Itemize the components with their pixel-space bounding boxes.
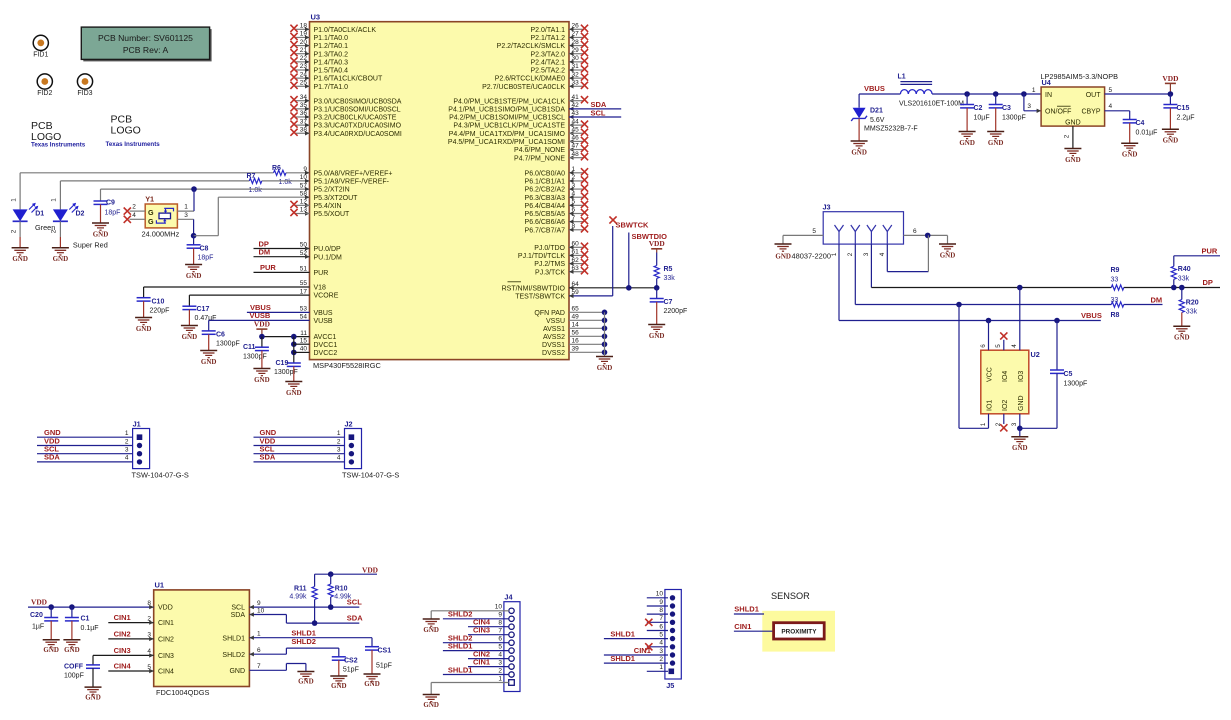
svg-text:56: 56 <box>572 330 580 337</box>
capacitor CS2 <box>332 656 346 658</box>
svg-text:6: 6 <box>913 228 917 235</box>
svg-text:8: 8 <box>498 620 502 627</box>
svg-text:7: 7 <box>498 628 502 635</box>
svg-text:GND: GND <box>1065 119 1081 126</box>
svg-text:TSW-104-07-G-S: TSW-104-07-G-S <box>132 471 189 480</box>
svg-text:VSSU: VSSU <box>546 318 565 325</box>
wire U4 OUT to VDD <box>1105 93 1171 95</box>
svg-text:52: 52 <box>300 250 308 257</box>
U3 pin DVCC1 15 <box>294 343 310 345</box>
capacitor C9 <box>100 189 102 201</box>
svg-text:1: 1 <box>125 430 129 437</box>
svg-text:J1: J1 <box>133 420 141 429</box>
svg-text:33k: 33k <box>1186 309 1198 316</box>
svg-text:1300pF: 1300pF <box>1002 114 1026 121</box>
svg-text:1300pF: 1300pF <box>216 341 240 348</box>
crystal Y1 pin 4 no-connect <box>130 218 146 220</box>
J3 pin 3 wire DP <box>870 244 872 287</box>
svg-text:OUT: OUT <box>1086 92 1102 99</box>
svg-text:SHLD2: SHLD2 <box>291 637 316 646</box>
svg-text:SHLD2: SHLD2 <box>222 652 245 659</box>
U1 pin CIN2 3 <box>108 638 153 640</box>
svg-text:C6: C6 <box>216 332 225 339</box>
wire net P5.1 to R7 to D2 <box>60 180 249 182</box>
wire net SDA to J2 pin 4 <box>254 461 345 463</box>
wire L1 to U4 IN <box>932 93 1041 95</box>
wire net SHLD1 to J5 pin 2 <box>604 662 668 664</box>
svg-text:2: 2 <box>847 252 854 256</box>
svg-text:C9: C9 <box>106 200 115 207</box>
svg-text:P1.7/TA1.0: P1.7/TA1.0 <box>314 84 349 91</box>
svg-text:2: 2 <box>659 656 663 663</box>
svg-text:1.0k: 1.0k <box>279 179 293 186</box>
ground at J3 pin6 <box>939 243 956 245</box>
svg-text:P6.5/CB5/A5: P6.5/CB5/A5 <box>525 211 566 218</box>
svg-text:D2: D2 <box>76 211 85 218</box>
svg-text:SCL: SCL <box>591 108 606 117</box>
svg-text:5: 5 <box>659 631 663 638</box>
svg-text:QFN PAD: QFN PAD <box>534 310 565 317</box>
svg-text:FID1: FID1 <box>33 52 48 59</box>
wire net GND to J2 pin 1 <box>254 436 345 438</box>
svg-text:P4.5/PM_UCA1RXD/PM_UCA1SOMI: P4.5/PM_UCA1RXD/PM_UCA1SOMI <box>448 139 565 146</box>
svg-text:P4.1/PM_UCB1SIMO/PM_UCB1SDA: P4.1/PM_UCB1SIMO/PM_UCB1SDA <box>448 106 565 113</box>
wire net P5.0 to R6 to D1 <box>20 172 273 174</box>
svg-text:64: 64 <box>572 281 580 288</box>
ground at J4 pin10 <box>423 618 440 620</box>
svg-text:P4.6/PM_NONE: P4.6/PM_NONE <box>514 147 565 154</box>
svg-text:P5.5/XOUT: P5.5/XOUT <box>314 211 351 218</box>
svg-text:2: 2 <box>51 229 58 233</box>
svg-text:P4.0/PM_UCB1STE/PM_UCA1CLK: P4.0/PM_UCB1STE/PM_UCA1CLK <box>453 98 565 105</box>
svg-text:7: 7 <box>659 615 663 622</box>
svg-text:51pF: 51pF <box>376 662 392 669</box>
wire VDD to AVCC1 DVCC rail <box>262 336 310 338</box>
svg-text:48037-2200: 48037-2200 <box>792 252 831 261</box>
svg-text:GND: GND <box>959 139 975 147</box>
svg-text:P3.2/UCB0CLK/UCA0STE: P3.2/UCB0CLK/UCA0STE <box>314 115 397 122</box>
svg-text:TSW-104-07-G-S: TSW-104-07-G-S <box>342 471 399 480</box>
ground at J3 pin5 <box>775 243 792 245</box>
svg-text:4.99k: 4.99k <box>289 594 307 601</box>
ground at C15 <box>1162 128 1179 130</box>
capacitor COFF <box>92 655 94 665</box>
svg-text:R9: R9 <box>1111 267 1120 274</box>
svg-text:39: 39 <box>572 346 580 353</box>
svg-text:50: 50 <box>300 242 308 249</box>
svg-text:GND: GND <box>1065 156 1081 164</box>
capacitor CS1 <box>371 638 373 647</box>
U3 port PJ no-connect pins 60-63 <box>569 246 583 248</box>
resistor R5 <box>656 253 658 266</box>
svg-text:CIN4: CIN4 <box>158 669 174 676</box>
wire net CIN1 to J5 pin 3 <box>604 654 668 656</box>
capacitor C2 <box>966 94 968 105</box>
svg-text:4: 4 <box>132 212 136 219</box>
svg-text:65: 65 <box>572 306 580 313</box>
svg-text:U3: U3 <box>311 13 321 22</box>
svg-text:1: 1 <box>257 631 261 638</box>
wire net SHLD1 to J4 pin 2 <box>443 674 509 676</box>
svg-text:GND: GND <box>775 253 791 261</box>
svg-text:PUR: PUR <box>314 270 329 277</box>
svg-text:24.000MHz: 24.000MHz <box>142 230 180 239</box>
svg-text:SHLD1: SHLD1 <box>448 641 473 650</box>
svg-text:VBUS: VBUS <box>864 84 885 93</box>
svg-text:SENSOR: SENSOR <box>771 591 810 601</box>
U4 GND pin 2 to ground <box>1072 126 1074 148</box>
svg-text:1: 1 <box>51 198 58 202</box>
crystal Y1 <box>145 204 177 228</box>
svg-text:3: 3 <box>1011 422 1018 426</box>
PCB number box <box>83 29 211 61</box>
svg-text:3: 3 <box>863 252 870 256</box>
svg-text:P6.3/CB3/A3: P6.3/CB3/A3 <box>525 195 566 202</box>
svg-text:P2.0/TA1.1: P2.0/TA1.1 <box>530 27 565 34</box>
svg-text:GND: GND <box>851 148 867 156</box>
svg-text:GND: GND <box>85 693 101 701</box>
svg-text:2: 2 <box>125 438 129 445</box>
svg-text:C11: C11 <box>243 344 256 351</box>
svg-text:GND: GND <box>988 139 1004 147</box>
svg-text:3: 3 <box>498 659 502 666</box>
svg-text:VBUS: VBUS <box>1081 311 1102 320</box>
svg-text:GND: GND <box>423 626 439 634</box>
wire net DM <box>855 304 1111 306</box>
wire net SHLD2 to J4 pin 6 <box>443 642 509 644</box>
svg-text:1: 1 <box>980 422 987 426</box>
U1 pin SHLD2 6 wire <box>249 653 286 655</box>
svg-text:54: 54 <box>300 314 308 321</box>
svg-text:P6.6/CB6/A6: P6.6/CB6/A6 <box>525 219 566 226</box>
svg-text:1: 1 <box>831 252 838 256</box>
wire net DP <box>871 287 1111 289</box>
resistor R11 <box>314 574 316 586</box>
U1 pin CIN1 2 <box>108 622 153 624</box>
svg-text:IO3: IO3 <box>1018 371 1025 382</box>
svg-text:GND: GND <box>12 255 28 263</box>
svg-text:0.1µF: 0.1µF <box>81 625 99 632</box>
svg-text:CIN2: CIN2 <box>114 630 131 639</box>
svg-text:PUR: PUR <box>260 263 276 272</box>
svg-text:3: 3 <box>147 632 151 639</box>
svg-text:9: 9 <box>498 612 502 619</box>
svg-text:RST/NMI/SBWTDIO: RST/NMI/SBWTDIO <box>502 285 566 292</box>
svg-text:GND: GND <box>649 332 665 340</box>
capacitor C6 <box>202 330 216 332</box>
U1 pin VDD 8 wire <box>28 606 154 608</box>
capacitor C17 <box>182 305 196 307</box>
svg-text:1: 1 <box>184 204 188 211</box>
svg-text:P3.0/UCB0SIMO/UCB0SDA: P3.0/UCB0SIMO/UCB0SDA <box>314 98 402 105</box>
capacitor C4 <box>1123 119 1137 121</box>
junction node C3 <box>993 91 999 97</box>
svg-text:17: 17 <box>300 288 308 295</box>
svg-text:R40: R40 <box>1178 266 1191 273</box>
svg-text:Super Red: Super Red <box>73 240 108 249</box>
svg-text:DVCC1: DVCC1 <box>314 342 338 349</box>
junction node R5 C7 on RST wire <box>654 285 660 291</box>
wire net GND to J1 pin 1 <box>37 436 133 438</box>
crystal Y1 pin 2 no-connect <box>130 210 146 212</box>
wire net SHLD1 to sensor <box>734 613 764 615</box>
svg-text:D21: D21 <box>870 108 883 115</box>
svg-text:33k: 33k <box>1178 275 1190 282</box>
wire net VDD to J1 pin 2 <box>37 445 133 447</box>
capacitor C11 <box>261 337 263 348</box>
svg-text:GND: GND <box>331 682 347 690</box>
svg-text:Y1: Y1 <box>145 195 154 204</box>
svg-text:MMSZ5232B-7-F: MMSZ5232B-7-F <box>864 126 918 133</box>
junction node R11 on SDA <box>312 620 318 626</box>
junction node DM at U2 IO1 <box>956 302 962 308</box>
svg-text:100pF: 100pF <box>64 673 84 680</box>
LED D2 <box>53 209 68 221</box>
junction node DP at U2 IO3 <box>1017 285 1023 291</box>
U3 pin RST/NMI/SBWTDIO 64 <box>569 287 657 289</box>
ground at C11 <box>253 368 270 370</box>
svg-text:C20: C20 <box>30 612 43 619</box>
ground at C3 <box>987 131 1004 133</box>
svg-text:GND: GND <box>298 678 314 686</box>
svg-text:9: 9 <box>659 599 663 606</box>
svg-text:P1.3/TA0.2: P1.3/TA0.2 <box>314 51 349 58</box>
svg-text:2: 2 <box>132 204 136 211</box>
wire net XT2IN P5.2 <box>101 188 310 190</box>
svg-text:PROXIMITY: PROXIMITY <box>781 628 817 635</box>
svg-text:SHLD2: SHLD2 <box>448 610 473 619</box>
wire net SHLD1 to J5 pin 5 <box>604 638 668 640</box>
svg-text:R7: R7 <box>247 173 256 180</box>
capacitor C20 <box>50 607 52 617</box>
svg-text:4: 4 <box>659 640 663 647</box>
resistor R8 <box>1111 302 1124 307</box>
svg-text:4: 4 <box>879 252 886 256</box>
svg-text:CS1: CS1 <box>378 647 392 654</box>
svg-text:P4.2/PM_UCB1SOMI/PM_UCB1SCL: P4.2/PM_UCB1SOMI/PM_UCB1SCL <box>449 115 565 122</box>
svg-text:GND: GND <box>136 325 152 333</box>
svg-text:CIN1: CIN1 <box>734 622 751 631</box>
U3 pin PU.0/DP 50 <box>254 248 310 250</box>
svg-text:P1.5/TA0.4: P1.5/TA0.4 <box>314 68 349 75</box>
svg-text:18pF: 18pF <box>105 210 121 217</box>
svg-text:33k: 33k <box>664 275 676 282</box>
U3 pin PUR 51 <box>254 271 310 273</box>
svg-text:GND: GND <box>53 255 69 263</box>
wire net CIN1 to J4 pin 3 <box>468 666 509 668</box>
svg-text:SHLD1: SHLD1 <box>734 605 759 614</box>
op-amp U3 MSP430F5528IRGC body <box>310 22 570 360</box>
svg-text:VDD: VDD <box>649 239 665 248</box>
junction node R10 on SCL <box>328 604 334 610</box>
svg-text:1300pF: 1300pF <box>1064 381 1088 388</box>
svg-text:5: 5 <box>147 664 151 671</box>
svg-text:AVCC1: AVCC1 <box>314 334 337 341</box>
svg-text:11: 11 <box>300 330 307 337</box>
svg-text:P6.4/CB4/A4: P6.4/CB4/A4 <box>525 203 566 210</box>
svg-text:IO4: IO4 <box>1002 371 1009 382</box>
svg-text:CS2: CS2 <box>344 657 358 664</box>
J3 pin 1 wire VBUS <box>838 244 840 320</box>
capacitor C19 <box>287 362 301 364</box>
svg-text:ON/OFF: ON/OFF <box>1045 109 1071 116</box>
wire net VDD to J2 pin 2 <box>254 445 345 447</box>
wire net XT2OUT P5.3 <box>194 235 219 237</box>
J5 pin 6 stub <box>647 630 668 632</box>
svg-text:G: G <box>148 208 154 217</box>
U1 pin CIN3 4 <box>93 654 154 656</box>
U3 port P6 no-connect pins 1-8 <box>569 172 583 174</box>
svg-text:4: 4 <box>147 648 151 655</box>
svg-text:6: 6 <box>257 647 261 654</box>
U3 pin VCORE 17 with capacitor C17 <box>189 294 309 296</box>
svg-text:P2.4/TA2.1: P2.4/TA2.1 <box>530 59 565 66</box>
svg-text:GND: GND <box>1018 395 1025 411</box>
svg-text:PU.0/DP: PU.0/DP <box>314 246 342 253</box>
fiducial FID2 <box>37 74 52 89</box>
svg-text:P1.4/TA0.3: P1.4/TA0.3 <box>314 59 349 66</box>
junction node C1 <box>69 604 75 610</box>
U1 pin GND 7 wire <box>249 669 286 671</box>
svg-text:2.2µF: 2.2µF <box>1177 114 1195 121</box>
svg-text:GND: GND <box>423 701 439 709</box>
U3 pin PU.1/DM 52 <box>254 256 310 258</box>
svg-text:MSP430F5528IRGC: MSP430F5528IRGC <box>313 361 381 370</box>
svg-text:CIN4: CIN4 <box>114 662 132 671</box>
svg-text:U4: U4 <box>1042 78 1052 87</box>
svg-text:SBWTCK: SBWTCK <box>616 221 649 230</box>
wire net CIN3 to J4 pin 7 <box>468 634 509 636</box>
svg-text:2: 2 <box>147 615 151 622</box>
svg-text:VDD: VDD <box>1162 74 1178 83</box>
resistor R20 <box>1181 288 1183 300</box>
resistor R10 <box>330 574 332 584</box>
ground at J4 pin1 <box>423 694 440 696</box>
svg-text:P4.3/PM_UCB1CLK/PM_UCA1STE: P4.3/PM_UCB1CLK/PM_UCA1STE <box>453 123 565 130</box>
ground at U4 <box>1064 148 1081 150</box>
svg-text:Texas Instruments: Texas Instruments <box>106 141 161 148</box>
svg-text:P2.2/TA2CLK/SMCLK: P2.2/TA2CLK/SMCLK <box>497 43 566 50</box>
svg-text:SDA: SDA <box>347 614 363 623</box>
svg-text:IN: IN <box>1045 92 1052 99</box>
J4 pin 10 wire to ground <box>431 610 509 612</box>
svg-text:FID3: FID3 <box>77 90 92 97</box>
J5 pin 7 stub no-connect <box>647 621 668 623</box>
junction node VBUS at C5 <box>1054 318 1060 324</box>
svg-text:C10: C10 <box>152 299 165 306</box>
capacitor C10 <box>137 297 151 299</box>
svg-text:GND: GND <box>597 364 613 372</box>
svg-text:1: 1 <box>498 675 502 682</box>
svg-text:COFF: COFF <box>64 663 84 670</box>
svg-text:GND: GND <box>1174 334 1190 342</box>
resistor R7 <box>249 178 261 183</box>
svg-text:VCC: VCC <box>987 367 994 382</box>
wire D1 cathode to ground <box>19 221 21 237</box>
svg-text:GND: GND <box>186 272 202 280</box>
svg-text:6: 6 <box>659 623 663 630</box>
svg-text:FID2: FID2 <box>37 90 52 97</box>
svg-text:C3: C3 <box>1002 105 1011 112</box>
U1 pin SCL 9 wire <box>249 606 359 608</box>
svg-text:8: 8 <box>147 600 151 607</box>
svg-text:PJ.3/TCK: PJ.3/TCK <box>535 269 565 276</box>
svg-text:2: 2 <box>498 667 502 674</box>
wire VBUS to L1 <box>859 93 900 95</box>
U3 pin DVCC2 40 <box>294 351 310 353</box>
junction node XT2IN at crystal pin 1 <box>191 186 197 192</box>
svg-text:GND: GND <box>64 646 80 654</box>
svg-text:GND: GND <box>940 251 956 259</box>
wire net PUR right <box>1174 255 1220 257</box>
J3 pin 4 wire to shell <box>886 244 888 272</box>
capacitor C15 <box>1169 94 1171 105</box>
svg-text:V18: V18 <box>314 285 327 292</box>
J3 pin 5 shell to ground <box>783 234 823 236</box>
svg-text:LP2985AIM5-3.3/NOPB: LP2985AIM5-3.3/NOPB <box>1041 72 1119 81</box>
wire VSS bus to ground <box>604 312 606 356</box>
junction node VDD C15 <box>1168 91 1174 97</box>
svg-text:51pF: 51pF <box>343 667 359 674</box>
svg-text:TEST/SBWTCK: TEST/SBWTCK <box>515 294 565 301</box>
svg-text:PJ.2/TMS: PJ.2/TMS <box>534 261 565 268</box>
svg-text:LOGO: LOGO <box>111 125 141 137</box>
U3 pin TEST/SBWTCK 59 <box>569 295 613 297</box>
svg-text:R20: R20 <box>1186 299 1199 306</box>
svg-text:4: 4 <box>1109 103 1113 110</box>
svg-text:3: 3 <box>1027 103 1031 110</box>
svg-text:GND: GND <box>1163 137 1179 145</box>
svg-text:P2.5/TA2.2: P2.5/TA2.2 <box>530 68 565 75</box>
svg-text:GND: GND <box>201 358 217 366</box>
ground at C2 <box>959 131 976 133</box>
U2 IO4 pin 5 no-connect <box>1003 340 1005 350</box>
svg-text:18pF: 18pF <box>198 255 214 262</box>
svg-text:P2.7/UCB0STE/UCA0CLK: P2.7/UCB0STE/UCA0CLK <box>482 84 565 91</box>
svg-text:AVSS2: AVSS2 <box>543 334 565 341</box>
U2 IO2 pin 2 no-connect <box>1003 414 1005 424</box>
capacitor C1 <box>71 607 73 617</box>
svg-text:PCB Number: SV601125: PCB Number: SV601125 <box>98 33 193 43</box>
svg-text:P2.1/TA1.2: P2.1/TA1.2 <box>530 35 565 42</box>
ground at C8 <box>185 264 202 266</box>
svg-text:C17: C17 <box>197 306 210 313</box>
resistor R40 <box>1171 266 1176 279</box>
transistor U2 body <box>981 350 1029 414</box>
U2 IO1 pin 1 wire to DM <box>988 414 990 429</box>
J5 pin 9 stub <box>647 605 668 607</box>
ground at U3 VSS <box>596 356 613 358</box>
svg-text:33: 33 <box>1111 277 1119 284</box>
svg-text:15: 15 <box>300 337 308 344</box>
svg-text:55: 55 <box>300 280 308 287</box>
svg-text:SHLD1: SHLD1 <box>448 665 473 674</box>
svg-text:1: 1 <box>1032 87 1036 94</box>
wire net VBUS lower <box>839 320 1101 322</box>
svg-text:4: 4 <box>1011 344 1018 348</box>
svg-text:5: 5 <box>812 228 816 235</box>
svg-text:PJ.0/TDO: PJ.0/TDO <box>534 245 565 252</box>
svg-text:5: 5 <box>498 643 502 650</box>
ground at C9 <box>92 222 109 224</box>
svg-text:G: G <box>148 217 154 226</box>
U1 pin CIN4 5 <box>108 670 153 672</box>
ground at CS1 <box>364 673 381 675</box>
svg-text:3: 3 <box>337 447 341 454</box>
svg-text:R5: R5 <box>664 266 673 273</box>
U3 pin V18 55 with capacitor C10 <box>144 286 310 288</box>
svg-text:P4.4/PM_UCA1TXD/PM_UCA1SIMO: P4.4/PM_UCA1TXD/PM_UCA1SIMO <box>449 131 566 138</box>
